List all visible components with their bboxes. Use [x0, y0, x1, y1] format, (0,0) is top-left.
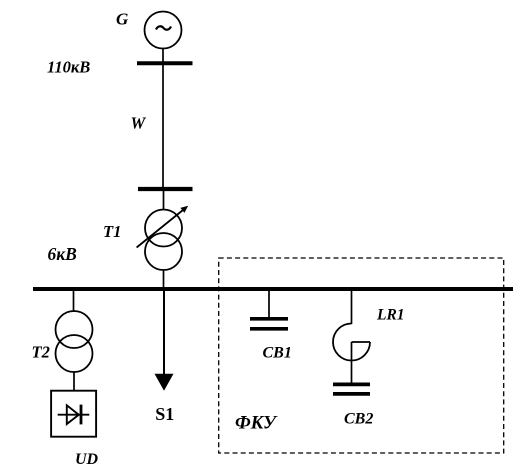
svg-text:CB2: CB2 — [344, 411, 373, 428]
wire busbar to LR1 — [351, 291, 353, 324]
transformer T2 upper winding — [56, 311, 93, 348]
transformer T1 upper winding — [145, 210, 182, 247]
dashed FKU enclosure — [219, 258, 504, 453]
wire busbar to T1 — [163, 189, 165, 210]
wire busbar to T2 — [73, 291, 75, 312]
generator G circle — [145, 12, 182, 49]
capacitor CB1 — [250, 319, 288, 329]
svg-text:UD: UD — [75, 451, 99, 468]
main 6kV busbar — [33, 287, 513, 291]
svg-text:6кВ: 6кВ — [48, 244, 78, 264]
capacitor CB2 — [333, 384, 370, 394]
svg-text:T1: T1 — [103, 222, 121, 241]
T1 regulation arrow — [137, 206, 189, 248]
transformer T1 lower winding — [145, 233, 182, 270]
transformer T2 lower winding — [56, 335, 93, 372]
generator sine mark — [156, 26, 171, 29]
svg-text:T2: T2 — [32, 342, 50, 361]
wire W line — [162, 63, 164, 189]
busbar 110kV — [137, 61, 193, 65]
busbar upper T1 side — [138, 187, 193, 191]
svg-text:110кВ: 110кВ — [47, 58, 90, 77]
wire generator to 110kV busbar — [162, 49, 164, 64]
svg-text:W: W — [131, 113, 147, 132]
wire busbar to CB1 — [268, 291, 270, 318]
wire T1 to main busbar — [163, 270, 165, 289]
svg-text:ФКУ: ФКУ — [235, 414, 278, 434]
reactor LR1 — [333, 324, 370, 384]
rectifier UD box — [51, 391, 96, 437]
svg-text:LR1: LR1 — [376, 307, 405, 324]
load arrow S1 — [155, 291, 174, 391]
svg-text:S1: S1 — [155, 404, 174, 424]
svg-text:G: G — [116, 10, 129, 29]
svg-text:CB1: CB1 — [263, 345, 292, 362]
wire T2 to rectifier UD — [73, 372, 75, 391]
diode inside UD — [58, 405, 90, 425]
